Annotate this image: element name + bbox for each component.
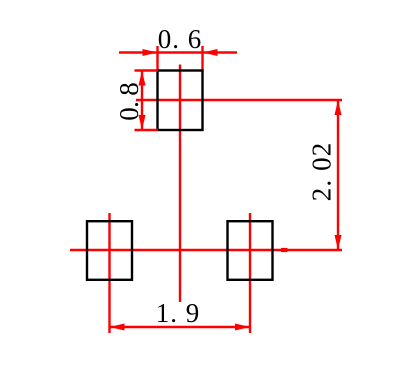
dimension 1.9: right arrowhead (points right) <box>235 324 250 331</box>
dimension 0.6: extension line left <box>156 46 158 71</box>
dimension 0.6: left arrowhead (points right) <box>143 49 158 56</box>
dimension 2.02: dimension line <box>337 100 339 250</box>
svg-text:0. 6: 0. 6 <box>158 24 202 54</box>
centerline vertical through top pad <box>179 65 181 303</box>
dimension 2.02: bottom arrowhead (points down) <box>335 235 342 250</box>
dimension 0.8: bottom arrowhead (points down) <box>139 115 146 130</box>
svg-text:0. 8: 0. 8 <box>114 82 144 121</box>
wire overlap blob on bottom centerline <box>281 248 288 252</box>
dimension 0.6: dimension line <box>119 51 237 53</box>
pad P3 (bottom-right) <box>228 221 273 280</box>
dimension 0.6: right arrowhead (points left) <box>203 49 218 56</box>
dimension 0.8: extension line top <box>135 69 159 71</box>
pad P2 (bottom-left) <box>87 221 132 280</box>
centerline vertical through bottom-right pad (extension for 1.9) <box>249 213 251 333</box>
dimension 0.8: top arrowhead (points up) <box>139 71 146 86</box>
centerline horizontal through top pad (extension for 2.02) <box>136 99 342 101</box>
dimension 0.6: extension line right <box>201 46 203 71</box>
dimension 1.9: left arrowhead (points left) <box>110 324 125 331</box>
pad P1 (top) <box>158 71 203 131</box>
dimension 0.8: dimension line <box>141 71 143 131</box>
centerline vertical through bottom-left pad (extension for 1.9) <box>108 213 110 333</box>
dimension 2.02: top arrowhead (points up) <box>335 100 342 115</box>
centerline horizontal through bottom pads (extension for 2.02) <box>70 249 342 251</box>
dimension 1.9: dimension line <box>110 326 251 328</box>
svg-text:1. 9: 1. 9 <box>156 298 200 328</box>
dimension 0.8: extension line bottom <box>135 129 159 131</box>
